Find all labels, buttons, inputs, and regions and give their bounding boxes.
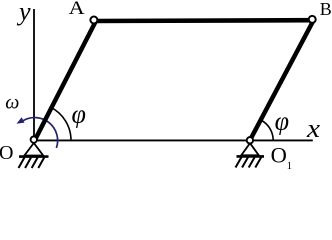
support base line at O1 [237, 155, 265, 158]
y axis [33, 9, 35, 140]
svg-text:O: O [271, 143, 287, 168]
crank O1B [250, 19, 314, 140]
svg-text:φ: φ [72, 100, 86, 129]
angle arc phi at O1 [261, 120, 273, 140]
x axis / ground line [33, 139, 313, 141]
svg-text:ω: ω [5, 92, 19, 114]
support triangle at O1 [241, 143, 259, 155]
svg-text:O: O [0, 142, 13, 164]
support base line at O [19, 155, 49, 158]
angle arc phi at O [51, 107, 72, 140]
svg-text:y: y [16, 0, 31, 26]
crank OA [35, 20, 97, 140]
coupler AB [94, 18, 312, 23]
svg-text:φ: φ [275, 107, 289, 136]
pin joint B [309, 16, 316, 23]
svg-text:A: A [69, 0, 85, 19]
hatching at O1 [236, 157, 262, 167]
svg-text:1: 1 [287, 160, 293, 170]
hatching at O [19, 158, 45, 169]
omega rotation arrow (blue arc) [23, 118, 57, 148]
svg-text:B: B [320, 0, 332, 19]
pin joint A [90, 17, 97, 24]
pivot O1 [247, 137, 253, 143]
svg-text:x: x [306, 114, 321, 143]
pivot O [31, 136, 37, 142]
omega arrowhead [17, 117, 25, 124]
support triangle at O [24, 143, 43, 156]
